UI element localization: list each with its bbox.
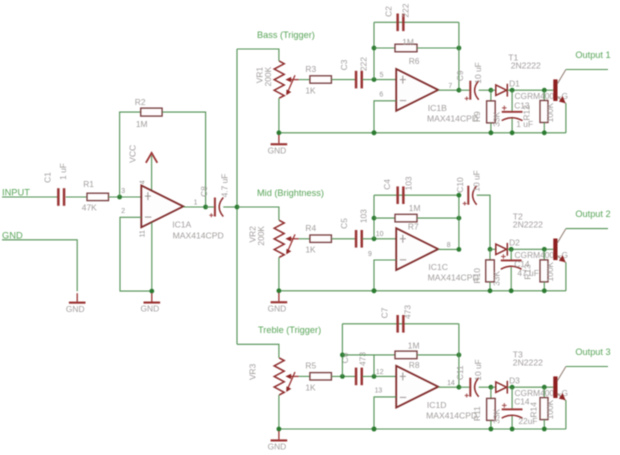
wire IC1A output [183,206,205,208]
svg-text:R14: R14 [528,402,538,418]
svg-text:200K: 200K [256,226,266,246]
supply VCC [151,156,153,191]
node output junction [203,205,208,210]
node rail junctions [277,427,282,432]
wire trigger bus vertical [236,49,238,344]
svg-text:R10: R10 [472,268,482,284]
wire pin11 to ground [151,222,153,291]
wire ground rail [279,132,566,134]
node +input junction [372,374,377,379]
node +input junction [372,77,377,82]
node 100K junction [542,385,547,390]
node cathode junction [509,247,514,252]
wire Rfb right lead [417,47,459,49]
svg-text:C1: C1 [43,172,53,183]
wire 100K to rail [543,420,545,429]
svg-text:C11: C11 [455,365,465,380]
ground GND (VR1) [278,135,280,143]
svg-text:R7: R7 [408,222,419,232]
svg-text:D1: D1 [509,78,520,88]
resistor R9 33K [490,90,492,101]
wire collector [557,229,566,244]
resistor R1 47K [87,193,109,200]
svg-text:33K: 33K [491,111,501,126]
svg-text:11: 11 [139,230,146,237]
wire C5 to +input [362,238,396,240]
svg-text:13: 13 [375,388,383,395]
wire R3 to C3 [331,79,355,81]
wire Rfb left lead [374,47,395,49]
wire R2 to output node [162,112,206,207]
svg-text:2: 2 [121,208,125,215]
svg-text:D3: D3 [509,375,520,385]
svg-text:D2: D2 [509,237,520,247]
resistor R5 1K [310,373,332,380]
svg-text:4: 4 [139,180,146,184]
svg-text:33K: 33K [491,271,501,286]
resistor R2 1M [141,108,162,116]
wire wiper to R [299,375,310,377]
svg-text:IC1D: IC1D [427,400,447,410]
node 100K junction [542,88,547,93]
svg-text:2N2222: 2N2222 [513,219,543,229]
resistor R4 1K [310,235,332,242]
wire shunt cap to rail [511,119,513,133]
wire feedback top [342,323,459,325]
svg-text:6: 6 [379,92,383,99]
wire feedback left vertical [373,195,375,239]
wire collector [557,367,566,382]
svg-text:GND: GND [268,303,287,313]
svg-text:1 uF: 1 uF [58,163,68,180]
wire feedback left vertical [373,22,375,79]
node diode anode junction [489,88,494,93]
capacitor C13 1 uF [511,90,513,111]
svg-text:Treble (Trigger): Treble (Trigger) [258,325,321,335]
svg-text:R9: R9 [472,111,482,122]
resistor R3 1K [310,76,332,83]
svg-text:473: 473 [403,305,413,319]
svg-text:C9: C9 [455,70,465,81]
wire VR3 bottom to rail [278,395,280,429]
wire Output 2 [566,228,608,230]
svg-text:Output 3: Output 3 [575,347,610,357]
transistor T1 2N2222 [553,79,557,101]
svg-text:103: 103 [359,209,369,223]
op-amp IC1C MAX414CPD [396,228,438,270]
wire INPUT to C1 [2,196,58,198]
node Rfb right junction [457,353,462,358]
capacitor C6 473 [355,368,358,386]
svg-text:R3: R3 [305,64,316,74]
svg-text:2N2222: 2N2222 [513,357,543,367]
op-amp IC1A [141,186,183,228]
svg-text:IC1B: IC1B [428,103,447,113]
wire feedback right vertical [458,195,460,249]
svg-text:12: 12 [376,369,384,376]
svg-text:1K: 1K [305,382,316,392]
wire emitter to rail [565,262,567,291]
node Rfb right junction [457,216,462,221]
node -input rail junction [372,427,377,432]
capacitor C2 222 [396,14,399,32]
node output junction [457,247,462,252]
svg-text:R8: R8 [409,360,420,370]
capacitor C14 47 uF [510,249,512,259]
svg-text:VCC: VCC [127,145,137,163]
svg-text:4.7 uF: 4.7 uF [220,174,230,198]
diode D2 CGRM4001-G [490,248,496,250]
wire R4 to C5 [331,238,355,240]
wire collector [557,70,566,85]
resistor R10 33K [489,249,491,260]
wire emitter to rail [565,400,567,429]
wire output to cap [459,386,469,388]
wire VR2 bottom to rail [278,257,280,291]
svg-text:MAX414CPD: MAX414CPD [426,410,477,420]
wire wiper to R [299,238,310,240]
wire emitter [557,256,566,263]
svg-text:222: 222 [401,3,411,17]
op-amp IC1D MAX414CPD [396,366,438,408]
capacitor C8 4.7 uF [214,198,216,217]
wire C6 to +input [362,375,396,377]
wire ground rail [279,290,566,292]
svg-text:GND: GND [141,304,160,314]
svg-text:GND: GND [66,304,85,314]
svg-text:473: 473 [358,352,368,366]
wire Output 3 [566,366,608,368]
node 100K junction [542,247,547,252]
svg-text:R6: R6 [409,56,420,66]
wire wiper to R [299,79,310,81]
svg-text:1M: 1M [408,341,420,351]
svg-text:R13: R13 [523,264,533,280]
wire Rfb right lead [417,354,459,356]
wire -input to rail [374,101,396,133]
svg-text:C2: C2 [384,6,394,17]
svg-text:GND: GND [2,230,23,240]
svg-text:1K: 1K [305,86,316,96]
wire shunt cap to rail [510,267,512,291]
capacitor C3 222 [355,71,358,89]
node output junction [457,385,462,390]
wire R1 to pin3 node [109,196,142,198]
wire GND net [2,240,77,291]
node IC1A ground junction [149,289,154,294]
wire branch from bus [237,49,279,61]
node diode anode junction [488,247,493,252]
svg-text:Bass (Trigger): Bass (Trigger) [257,30,315,40]
resistor R12 100K [543,90,545,100]
svg-text:8: 8 [447,242,451,249]
svg-text:GND: GND [268,145,287,155]
svg-text:VR3: VR3 [248,363,258,380]
wire emitter [557,96,566,103]
wire op-amp output [438,248,459,250]
potentiometer VR1 200K [274,61,284,98]
wire cap to diode node [479,89,491,91]
ground GND (input) [76,293,78,301]
node feedback/R junction [340,353,345,358]
wire feedback right vertical [458,324,460,387]
svg-text:IC1C: IC1C [428,262,448,272]
node cathode junction [510,385,515,390]
svg-text:C4: C4 [382,179,392,190]
svg-text:C7: C7 [380,307,390,318]
node pre-cap junction [340,374,345,379]
op-amp IC1B MAX414CPD [396,69,438,111]
svg-text:C10: C10 [455,177,465,193]
svg-text:Output 2: Output 2 [575,209,610,219]
wire op-amp output [438,386,459,388]
wire diode to base node [507,89,553,91]
node Rfb left junction [372,216,377,221]
svg-text:1K: 1K [305,245,316,255]
capacitor C5 103 [355,230,358,248]
svg-text:200K: 200K [263,66,273,86]
wire -input to rail [374,260,396,291]
capacitor C1 1 uF [57,188,60,206]
node rail junctions [277,288,282,293]
wire branch from bus [237,207,279,220]
svg-text:R12: R12 [522,105,532,121]
svg-text:103: 103 [403,176,413,190]
svg-text:1M: 1M [409,203,421,213]
node top-wire C10 junction [457,193,462,198]
svg-text:2N2222: 2N2222 [511,60,541,70]
resistor R7 1M [395,214,417,222]
capacitor C14 22uF [511,387,513,408]
wire C10 to diode branch [477,195,490,249]
svg-text:MAX414CPD: MAX414CPD [427,113,478,123]
resistor R11 33K [490,387,492,398]
diode D1 CGRM4001-G [491,89,496,91]
node bus mid junction [235,205,240,210]
wire VR1 bottom to rail [278,98,280,133]
node output junction [457,88,462,93]
capacitor C4 103 [396,186,399,204]
resistor R13 100K [543,249,545,260]
svg-text:C5: C5 [339,218,349,229]
wire 100K to rail [543,123,545,133]
wire 33K to rail [490,123,492,133]
resistor R8 1M [395,351,417,359]
wire feedback left vertical [341,324,343,377]
node rail junctions [277,130,282,135]
svg-text:MAX414CPD: MAX414CPD [173,230,224,240]
ground GND (IC1A) [151,293,153,301]
wire C3 to +input [362,79,396,81]
wire feedback right vertical [458,22,460,90]
node Rfb right junction [457,46,462,51]
wire feedback top [374,21,459,23]
wire diode to base node [507,248,553,250]
wire branch from bus [237,344,279,358]
node Rfb left junction [372,46,377,51]
diode D3 CGRM4001-G [491,386,496,388]
node pin3 junction [117,195,122,200]
node diode anode junction [489,385,494,390]
node cathode junction [510,88,515,93]
wire Rfb left lead [374,217,395,219]
wire R5 to C6 [331,375,355,377]
wire -input to rail [374,397,396,429]
capacitor C10 10 uF [467,186,469,205]
resistor R6 1M [395,44,417,52]
wire 33K to rail [490,420,492,429]
node -input rail junction [372,130,377,135]
svg-text:33K: 33K [491,408,501,423]
svg-text:IC1A: IC1A [172,219,191,229]
wire ground rail [279,428,566,430]
potentiometer VR3 [274,358,284,395]
capacitor C7 473 [396,315,399,333]
ground GND (VR3) [278,431,280,439]
wire Rfb left lead [342,354,395,356]
wire Rfb right lead [417,217,459,219]
wire feedback left (node to R2) [120,112,141,197]
svg-text:R1: R1 [83,179,94,189]
svg-text:100K: 100K [545,102,555,122]
svg-text:10: 10 [376,231,384,238]
svg-text:R2: R2 [135,97,146,107]
resistor R14 100K [543,387,545,397]
svg-text:100K: 100K [545,262,555,282]
wire C8 to bus [223,206,237,208]
ground GND (VR2) [278,293,280,301]
wire C1 to R1 [66,196,87,198]
svg-text:R5: R5 [305,361,316,371]
wire cap to diode node [479,386,491,388]
wire op-amp output [438,89,459,91]
wire shunt cap to rail [511,416,513,429]
svg-text:Output 1: Output 1 [575,50,610,60]
svg-text:100K: 100K [545,399,555,419]
wire diode to base node [507,386,553,388]
svg-text:1M: 1M [402,37,414,47]
svg-text:R4: R4 [305,223,316,233]
node +input junction [372,236,377,241]
wire to C8 [206,206,214,208]
node -input rail junction [372,288,377,293]
svg-text:Mid (Brightness): Mid (Brightness) [257,188,324,198]
svg-text:C3: C3 [339,59,349,70]
svg-text:10 uF: 10 uF [471,170,481,191]
wire 33K to rail [489,282,491,291]
wire output to cap [459,89,469,91]
svg-text:GND: GND [268,442,287,452]
wire emitter to rail [565,103,567,133]
svg-text:222: 222 [359,57,369,71]
svg-text:5: 5 [380,72,384,79]
wire feedback top [374,194,459,196]
transistor T2 2N2222 [553,239,557,261]
svg-text:R11: R11 [472,406,482,421]
svg-text:10 uF: 10 uF [473,62,483,83]
svg-text:C8: C8 [199,186,209,197]
wire jog to +input node [373,355,375,377]
svg-text:1: 1 [194,200,198,207]
svg-text:3: 3 [121,188,125,195]
svg-text:10 uF: 10 uF [473,359,483,380]
wire Output 1 [566,69,608,71]
svg-text:9: 9 [368,251,372,258]
svg-text:1M: 1M [136,119,148,129]
svg-text:14: 14 [447,380,455,387]
svg-text:INPUT: INPUT [2,187,30,197]
svg-text:47K: 47K [82,203,97,213]
svg-text:7: 7 [448,83,452,90]
wire 100K to rail [543,282,545,291]
potentiometer VR2 200K [274,220,284,257]
wire emitter [557,393,566,400]
transistor T3 2N2222 [553,376,557,398]
wire pin2 to ground [120,217,152,291]
